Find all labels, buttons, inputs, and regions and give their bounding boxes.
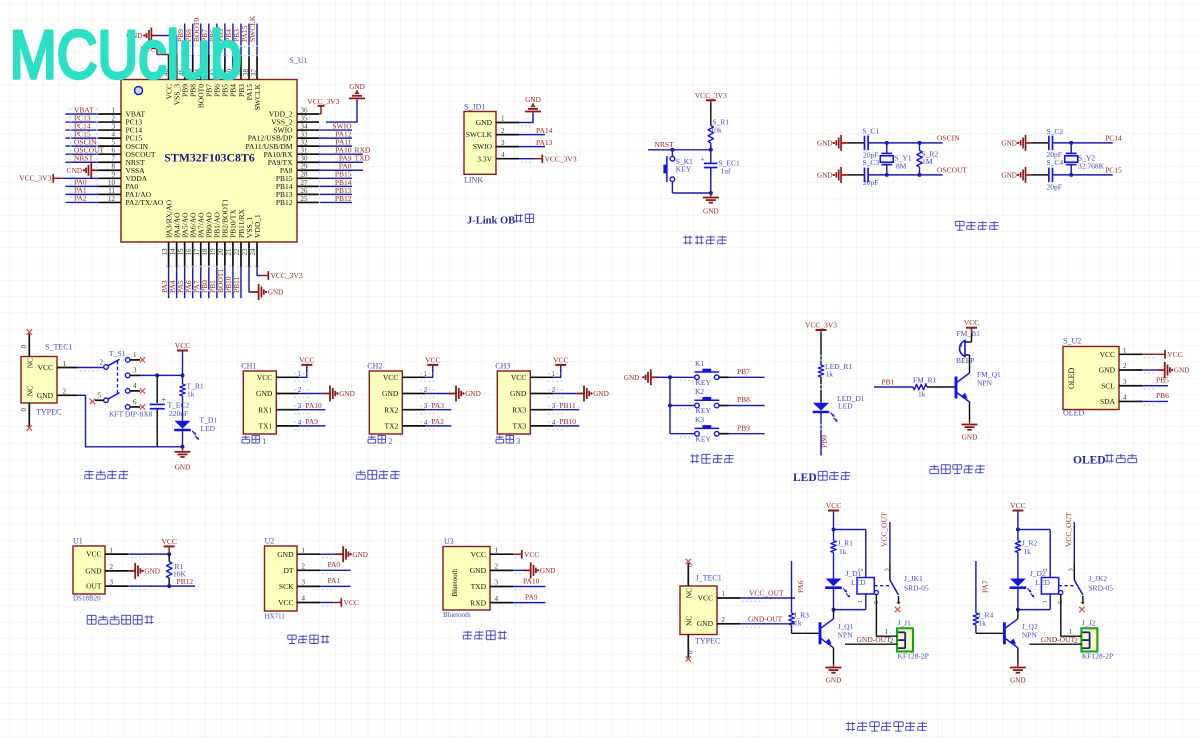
svg-text:GND: GND — [817, 172, 833, 180]
svg-text:GND: GND — [382, 389, 399, 398]
svg-text:T_S1: T_S1 — [109, 349, 126, 358]
svg-text:SWCLK: SWCLK — [466, 130, 493, 139]
svg-text:TX2: TX2 — [385, 422, 399, 431]
svg-text:J_TEC1: J_TEC1 — [696, 574, 722, 583]
svg-text:11: 11 — [108, 187, 115, 195]
svg-text:Bluetooth: Bluetooth — [451, 568, 459, 596]
svg-text:2: 2 — [302, 563, 306, 571]
svg-text:2: 2 — [501, 127, 505, 135]
svg-text:VCC: VCC — [299, 355, 314, 364]
svg-text:SRD-05: SRD-05 — [1088, 584, 1113, 593]
svg-text:U2: U2 — [265, 537, 275, 546]
svg-text:NRST: NRST — [74, 154, 94, 163]
svg-text:3: 3 — [1123, 378, 1127, 386]
svg-text:S_C4: S_C4 — [1047, 158, 1064, 167]
svg-text:2: 2 — [495, 563, 499, 571]
svg-text:PB12: PB12 — [335, 194, 352, 203]
svg-text:VCC: VCC — [383, 373, 398, 382]
svg-text:TX3: TX3 — [513, 422, 527, 431]
svg-text:GND: GND — [37, 391, 54, 400]
svg-text:SCL: SCL — [1101, 381, 1115, 390]
svg-text:LED: LED — [201, 424, 216, 433]
svg-text:0: 0 — [20, 345, 28, 349]
svg-text:1: 1 — [262, 437, 266, 446]
svg-text:S_TEC1: S_TEC1 — [45, 343, 73, 352]
svg-text:GND: GND — [256, 389, 273, 398]
svg-text:1: 1 — [110, 546, 114, 554]
svg-text:25: 25 — [301, 195, 309, 203]
svg-text:TX1: TX1 — [259, 422, 273, 431]
svg-text:PA2: PA2 — [74, 194, 87, 203]
svg-text:SDA: SDA — [1100, 397, 1116, 406]
svg-text:VCC_3V3: VCC_3V3 — [695, 91, 727, 100]
svg-text:VCC: VCC — [524, 550, 539, 559]
svg-text:J-Link OB: J-Link OB — [467, 215, 515, 226]
svg-text:29: 29 — [301, 163, 309, 171]
svg-text:GND: GND — [697, 619, 714, 628]
svg-text:CH1: CH1 — [241, 362, 256, 371]
svg-text:1: 1 — [63, 360, 67, 368]
svg-text:3: 3 — [133, 367, 137, 375]
svg-text:37: 37 — [250, 69, 258, 77]
svg-text:NC: NC — [685, 588, 694, 598]
svg-text:GND: GND — [703, 208, 719, 216]
svg-text:PB7: PB7 — [737, 367, 750, 376]
svg-text:SWCLK: SWCLK — [248, 15, 257, 42]
svg-text:2: 2 — [1042, 568, 1049, 571]
svg-text:SRD-05: SRD-05 — [904, 584, 929, 593]
svg-text:10: 10 — [108, 179, 116, 187]
svg-text:S_C1: S_C1 — [863, 126, 880, 135]
svg-text:PB12: PB12 — [276, 198, 293, 207]
svg-text:12: 12 — [108, 195, 116, 203]
svg-text:VCC: VCC — [1010, 501, 1025, 510]
svg-text:VCC: VCC — [698, 594, 713, 603]
svg-text:GND: GND — [465, 390, 481, 398]
svg-text:3: 3 — [883, 568, 890, 571]
svg-text:PA14: PA14 — [536, 126, 553, 135]
svg-text:NC: NC — [25, 386, 34, 396]
svg-text:CH3: CH3 — [495, 362, 510, 371]
svg-text:PA1: PA1 — [328, 576, 341, 585]
svg-text:0: 0 — [20, 408, 28, 412]
svg-text:20: 20 — [217, 248, 225, 256]
svg-text:S_C3: S_C3 — [863, 158, 880, 167]
svg-text:GND: GND — [624, 374, 640, 382]
svg-text:PA9: PA9 — [525, 592, 538, 601]
svg-text:1: 1 — [722, 590, 726, 598]
svg-text:TYPEC: TYPEC — [695, 637, 720, 646]
svg-text:VCC: VCC — [278, 598, 293, 607]
svg-text:GND: GND — [826, 677, 842, 685]
svg-text:LED: LED — [1035, 578, 1050, 587]
svg-text:6: 6 — [133, 398, 137, 406]
svg-text:DT: DT — [284, 566, 294, 575]
svg-text:2: 2 — [722, 616, 726, 624]
svg-text:3: 3 — [516, 437, 520, 446]
svg-text:2: 2 — [1074, 637, 1078, 645]
svg-text:1: 1 — [112, 106, 116, 114]
svg-text:GND: GND — [1001, 140, 1017, 148]
svg-text:3: 3 — [110, 578, 114, 586]
svg-text:FM_R1: FM_R1 — [913, 375, 937, 384]
svg-text:J_JK1: J_JK1 — [904, 574, 923, 583]
svg-text:1: 1 — [302, 546, 306, 554]
svg-text:VCC_OUT: VCC_OUT — [880, 512, 889, 547]
svg-text:GND: GND — [593, 390, 609, 398]
svg-text:VCC: VCC — [1100, 350, 1115, 359]
svg-text:MCUclub: MCUclub — [10, 17, 242, 93]
svg-text:OUT: OUT — [86, 582, 102, 591]
svg-text:PA10: PA10 — [523, 576, 540, 585]
svg-text:3: 3 — [1068, 568, 1075, 571]
svg-text:4: 4 — [302, 595, 306, 603]
svg-text:30: 30 — [301, 155, 309, 163]
svg-text:VCC: VCC — [471, 550, 486, 559]
svg-text:GND: GND — [510, 389, 527, 398]
svg-text:220uF: 220uF — [169, 409, 188, 418]
svg-text:LED: LED — [793, 472, 817, 484]
svg-text:PA6: PA6 — [796, 580, 805, 593]
svg-text:GND: GND — [1001, 172, 1017, 180]
svg-text:GND: GND — [540, 567, 556, 575]
svg-text:2: 2 — [112, 114, 116, 122]
svg-text:20pF: 20pF — [1047, 183, 1062, 192]
svg-text:S_U2: S_U2 — [1063, 337, 1081, 346]
svg-text:GND-OUT: GND-OUT — [1041, 635, 1076, 644]
svg-text:VCC: VCC — [38, 363, 53, 372]
svg-text:VCC: VCC — [86, 550, 101, 559]
svg-text:1: 1 — [857, 600, 864, 603]
svg-text:2: 2 — [890, 637, 894, 645]
svg-text:VCC: VCC — [826, 501, 841, 510]
svg-text:VCC: VCC — [425, 355, 440, 364]
svg-text:NPN: NPN — [838, 631, 854, 640]
svg-text:SWCLK: SWCLK — [253, 83, 262, 110]
svg-text:J_J2: J_J2 — [1082, 619, 1096, 628]
svg-text:GND: GND — [349, 83, 365, 91]
svg-text:GND: GND — [470, 566, 487, 575]
svg-text:19: 19 — [209, 248, 217, 256]
svg-text:LED: LED — [838, 402, 853, 411]
svg-text:GND: GND — [144, 568, 160, 576]
svg-text:Bluetooth: Bluetooth — [443, 611, 471, 619]
svg-text:PA0: PA0 — [328, 560, 341, 569]
svg-text:35: 35 — [301, 114, 309, 122]
svg-text:VCC_3V3: VCC_3V3 — [545, 154, 577, 163]
svg-text:23: 23 — [241, 248, 249, 256]
svg-text:+: + — [960, 342, 964, 350]
svg-text:OLED: OLED — [1067, 367, 1076, 389]
svg-text:3.3V: 3.3V — [477, 154, 492, 163]
svg-text:SCK: SCK — [279, 582, 294, 591]
svg-text:VCC_3V3: VCC_3V3 — [271, 271, 303, 280]
svg-text:LINK: LINK — [464, 175, 483, 184]
svg-text:KFT DIP-8X8: KFT DIP-8X8 — [109, 410, 153, 419]
svg-text:1: 1 — [1123, 347, 1127, 355]
svg-text:HX711: HX711 — [265, 613, 286, 621]
svg-text:20pF: 20pF — [863, 178, 878, 187]
svg-text:7: 7 — [112, 155, 116, 163]
svg-text:GND: GND — [85, 567, 102, 576]
svg-text:13: 13 — [161, 248, 169, 256]
svg-text:SWIO: SWIO — [473, 142, 493, 151]
svg-text:J_JK2: J_JK2 — [1088, 574, 1107, 583]
svg-text:2: 2 — [388, 437, 392, 446]
svg-text:RXD: RXD — [470, 598, 486, 607]
svg-text:1k: 1k — [1023, 547, 1031, 556]
svg-text:K3: K3 — [695, 415, 704, 424]
svg-text:8M: 8M — [896, 161, 907, 170]
svg-text:U3: U3 — [444, 537, 454, 546]
svg-text:2: 2 — [858, 568, 865, 571]
svg-text:4: 4 — [133, 382, 137, 390]
svg-text:1k: 1k — [839, 547, 847, 556]
svg-text:VCC: VCC — [553, 355, 568, 364]
svg-text:BEEP: BEEP — [956, 356, 974, 365]
svg-text:34: 34 — [301, 122, 309, 130]
svg-text:28: 28 — [301, 171, 309, 179]
svg-text:S_U1: S_U1 — [289, 56, 307, 65]
svg-text:1: 1 — [495, 546, 499, 554]
svg-text:GND: GND — [1174, 367, 1190, 375]
svg-text:3: 3 — [495, 579, 499, 587]
svg-text:VCC_3V3: VCC_3V3 — [805, 320, 837, 329]
svg-text:1k: 1k — [826, 370, 834, 379]
svg-text:KEY: KEY — [676, 165, 692, 174]
svg-text:17: 17 — [193, 248, 201, 256]
svg-text:24: 24 — [249, 248, 257, 256]
svg-text:PA2/TX/AO: PA2/TX/AO — [126, 198, 164, 207]
svg-text:KF128-2P: KF128-2P — [1082, 652, 1113, 661]
svg-text:OLED: OLED — [1063, 409, 1085, 418]
svg-text:36: 36 — [301, 106, 309, 114]
svg-text:1: 1 — [133, 351, 137, 359]
svg-text:GND-OUT: GND-OUT — [857, 635, 892, 644]
svg-text:1k: 1k — [187, 389, 195, 398]
svg-text:16: 16 — [185, 248, 193, 256]
svg-text:9: 9 — [112, 171, 116, 179]
svg-text:K2: K2 — [695, 387, 704, 396]
svg-text:VCC: VCC — [344, 598, 359, 607]
svg-text:18: 18 — [201, 248, 209, 256]
svg-text:KEY: KEY — [696, 378, 712, 387]
svg-text:5: 5 — [98, 392, 102, 400]
svg-text:GND: GND — [476, 118, 493, 127]
svg-text:22: 22 — [233, 248, 241, 256]
svg-text:2: 2 — [63, 388, 67, 396]
svg-text:VCC_OUT: VCC_OUT — [749, 589, 784, 598]
svg-text:5: 5 — [112, 139, 116, 147]
svg-text:VCC: VCC — [161, 537, 176, 546]
svg-text:3: 3 — [501, 139, 505, 147]
svg-text:GND: GND — [268, 289, 284, 297]
svg-text:6: 6 — [112, 147, 116, 155]
svg-text:0: 0 — [686, 650, 694, 654]
svg-text:14: 14 — [169, 248, 177, 256]
svg-text:PA7: PA7 — [980, 580, 989, 593]
svg-text:8: 8 — [112, 163, 116, 171]
svg-text:KEY: KEY — [696, 434, 712, 443]
svg-text:PC14: PC14 — [1105, 133, 1122, 142]
svg-text:CH2: CH2 — [367, 362, 382, 371]
svg-text:PB6: PB6 — [1156, 391, 1169, 400]
svg-text:32: 32 — [301, 139, 309, 147]
svg-text:NC: NC — [685, 616, 694, 626]
svg-text:2: 2 — [100, 359, 104, 367]
svg-text:2: 2 — [1123, 362, 1127, 370]
svg-text:J_J1: J_J1 — [898, 619, 912, 628]
svg-text:1k: 1k — [918, 390, 926, 399]
svg-text:OLED: OLED — [1073, 455, 1106, 467]
svg-text:K1: K1 — [695, 359, 704, 368]
svg-text:NC: NC — [25, 358, 34, 368]
svg-text:27: 27 — [301, 179, 309, 187]
svg-text:PC15: PC15 — [1105, 165, 1122, 174]
svg-text:31: 31 — [301, 147, 309, 155]
svg-text:FM_B1: FM_B1 — [957, 329, 981, 338]
svg-text:21: 21 — [225, 248, 233, 256]
svg-text:VCC: VCC — [964, 318, 979, 327]
svg-text:38: 38 — [242, 69, 250, 77]
svg-text:LED: LED — [851, 578, 866, 587]
svg-text:RX3: RX3 — [512, 405, 526, 414]
svg-text:GND: GND — [817, 140, 833, 148]
svg-text:S_JD1: S_JD1 — [464, 103, 485, 112]
svg-text:GND: GND — [339, 390, 355, 398]
svg-text:1: 1 — [1042, 600, 1049, 603]
svg-text:PB8: PB8 — [737, 395, 750, 404]
svg-text:S_C2: S_C2 — [1047, 127, 1064, 136]
svg-text:1uf: 1uf — [721, 167, 732, 176]
svg-text:PB9: PB9 — [737, 423, 750, 432]
svg-text:GND: GND — [175, 464, 191, 472]
svg-text:U1: U1 — [73, 537, 83, 546]
svg-text:1: 1 — [501, 115, 505, 123]
svg-text:TYPEC: TYPEC — [36, 408, 61, 417]
svg-text:GND-OUT: GND-OUT — [748, 614, 783, 623]
svg-text:GND: GND — [1010, 677, 1026, 685]
svg-text:3: 3 — [112, 122, 116, 130]
svg-text:4: 4 — [501, 151, 505, 159]
svg-text:4: 4 — [112, 131, 116, 139]
svg-text:+: + — [162, 396, 167, 405]
svg-text:GND: GND — [277, 550, 294, 559]
svg-text:PB5: PB5 — [1156, 375, 1169, 384]
svg-text:VCC: VCC — [175, 341, 190, 350]
svg-text:VCC: VCC — [511, 373, 526, 382]
svg-text:VCC: VCC — [257, 373, 272, 382]
svg-text:KEY: KEY — [696, 406, 712, 415]
svg-text:OSCOUT: OSCOUT — [937, 165, 967, 174]
svg-text:26: 26 — [301, 187, 309, 195]
svg-text:TXD: TXD — [471, 582, 487, 591]
svg-text:VCC_3V3: VCC_3V3 — [307, 97, 339, 106]
svg-text:STM32F103C8T6: STM32F103C8T6 — [164, 151, 255, 165]
svg-text:NPN: NPN — [1022, 631, 1038, 640]
svg-text:RX2: RX2 — [384, 405, 398, 414]
svg-text:1k: 1k — [978, 619, 986, 628]
svg-text:GND: GND — [1099, 366, 1116, 375]
svg-text:OSCIN: OSCIN — [937, 133, 960, 142]
svg-text:TXD: TXD — [355, 154, 371, 163]
svg-text:RX1: RX1 — [258, 405, 272, 414]
svg-text:KF128-2P: KF128-2P — [898, 652, 929, 661]
svg-text:PB0: PB0 — [820, 435, 829, 448]
svg-text:PB1: PB1 — [882, 377, 895, 386]
svg-text:4: 4 — [1123, 394, 1127, 402]
svg-text:2: 2 — [110, 563, 114, 571]
svg-text:3: 3 — [302, 579, 306, 587]
svg-text:4: 4 — [495, 595, 499, 603]
svg-text:10k: 10k — [711, 126, 723, 135]
svg-text:15: 15 — [177, 248, 185, 256]
svg-text:GND: GND — [67, 167, 83, 175]
svg-text:DS18B20: DS18B20 — [73, 595, 101, 603]
svg-text:NRST: NRST — [655, 140, 675, 149]
svg-text:GND: GND — [525, 96, 541, 104]
svg-text:GND: GND — [962, 434, 978, 442]
svg-text:32.768K: 32.768K — [1078, 162, 1105, 171]
svg-text:VDD_1: VDD_1 — [253, 214, 262, 238]
svg-text:PB12: PB12 — [177, 577, 194, 586]
svg-text:33: 33 — [301, 131, 309, 139]
svg-text:NPN: NPN — [977, 379, 993, 388]
svg-text:+: + — [701, 156, 705, 164]
svg-text:VCC: VCC — [1167, 350, 1182, 359]
svg-text:PA13: PA13 — [536, 138, 553, 147]
svg-text:VCC_OUT: VCC_OUT — [1064, 512, 1073, 547]
svg-text:1M: 1M — [922, 157, 933, 166]
svg-text:GND: GND — [352, 551, 368, 559]
svg-text:1k: 1k — [794, 619, 802, 628]
svg-text:VCC_3V3: VCC_3V3 — [19, 174, 51, 183]
